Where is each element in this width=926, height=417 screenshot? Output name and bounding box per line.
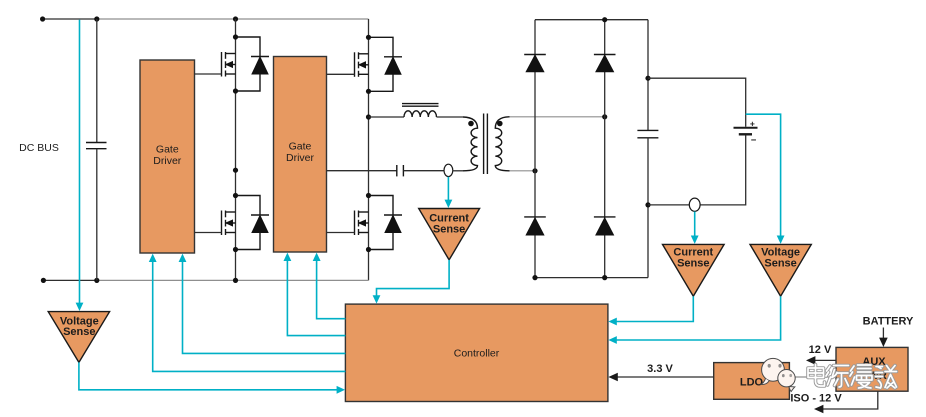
wire cyan current sense output to controller right — [616, 296, 694, 321]
diode D_Q4 body diode — [369, 196, 403, 250]
diode D3 — [524, 217, 546, 235]
wire series capacitor line from gate driver U2 — [327, 170, 397, 172]
arrowhead into gate driver U1 b — [179, 254, 187, 262]
wire secondary bottom to rectifier left leg — [510, 170, 535, 172]
wire cyan CT2 to current sense output — [694, 212, 696, 237]
node output bottom — [645, 202, 650, 207]
wire phase B to inductor — [369, 116, 405, 118]
svg-text:Controller: Controller — [454, 348, 500, 360]
svg-text:Sense: Sense — [677, 258, 709, 270]
arrowhead into current sense output — [691, 236, 699, 244]
diode D_Q3 body diode — [236, 196, 270, 250]
arrowhead into gate driver U1 a — [149, 254, 157, 262]
wire cyan CT1 to current sense primary — [447, 177, 449, 201]
wire top DC bus rail right part — [97, 18, 369, 20]
svg-text:Driver: Driver — [153, 155, 182, 167]
wire DC bus capacitor bottom lead — [96, 149, 98, 281]
svg-text:DC BUS: DC BUS — [19, 142, 59, 154]
node secondary bottom junction — [532, 168, 537, 173]
diode D1 — [524, 55, 546, 72]
node Q2 drain — [366, 35, 371, 40]
node Q1 source — [233, 88, 238, 93]
wire rectifier left leg — [534, 20, 536, 278]
transformer T1 secondary winding — [495, 117, 509, 171]
transformer T1 core — [484, 114, 488, 175]
wire rectifier top rail — [535, 19, 648, 21]
wire DC bus capacitor top lead — [96, 19, 98, 143]
inductor L1 core bars — [402, 104, 439, 107]
svg-text:BATTERY: BATTERY — [863, 316, 914, 328]
svg-text:Gate: Gate — [156, 144, 179, 156]
arrowhead battery into AUX — [879, 338, 888, 347]
wire LDO to AUX link — [789, 376, 836, 378]
wire cyan controller to gate driver U1 a — [153, 261, 346, 371]
AUX power module U5 — [836, 347, 908, 391]
inductor L1 — [404, 111, 436, 117]
watermark logo bubble large — [761, 358, 785, 384]
arrowhead ISO -12V — [814, 405, 823, 414]
svg-text:Sense: Sense — [433, 223, 465, 235]
wire Q3 gate — [195, 232, 222, 234]
arrowhead into controller right b — [608, 336, 616, 344]
transformer secondary polarity dot — [497, 121, 503, 127]
arrowhead into gate driver U2 b — [313, 253, 321, 261]
node top rail cap tap — [94, 16, 99, 21]
wire inductor to transformer primary top — [437, 116, 464, 118]
wire battery to bottom loop — [700, 135, 746, 205]
node rectifier bottom left — [532, 275, 537, 280]
transistor Q1 top-left MOSFET — [222, 52, 236, 77]
wire CT circle to transformer primary bottom — [453, 170, 463, 172]
watermark text 电源漫谈 — [808, 365, 897, 389]
op-amp triangle current sense output — [663, 244, 725, 296]
wire secondary top to rectifier right leg — [510, 116, 605, 118]
wire cyan controller to gate driver U2 b — [317, 260, 346, 319]
gate driver U1 — [140, 60, 195, 253]
wire output cap bottom to bottom rail — [647, 138, 649, 278]
node Q2 source — [366, 89, 371, 94]
wire 12V from AUX — [814, 359, 837, 361]
arrowhead into controller right a — [608, 318, 616, 326]
wire 3.3V LDO to controller — [617, 376, 714, 378]
wire bottom loop left part — [648, 204, 689, 206]
svg-text:Gate: Gate — [289, 141, 312, 153]
wire output top to battery — [648, 78, 746, 127]
arrowhead into voltage sense DC bus — [76, 303, 84, 311]
transformer primary polarity dot — [468, 121, 474, 127]
wire cyan battery tap to voltage sense output — [746, 114, 781, 236]
wire rectifier bottom rail — [535, 277, 648, 279]
current transformer CT2 circle — [689, 198, 700, 211]
svg-text:12 V: 12 V — [809, 344, 832, 356]
wire cyan controller to gate driver U1 b — [183, 261, 346, 353]
svg-text:3.3 V: 3.3 V — [647, 363, 673, 375]
arrowhead 12V — [806, 356, 815, 365]
battery BT1 minus plate — [739, 133, 752, 135]
svg-text:Sense: Sense — [764, 258, 796, 270]
arrowhead into current sense primary — [445, 200, 453, 208]
node rectifier bottom right — [602, 275, 607, 280]
node bottom rail left leg — [233, 278, 238, 283]
wire cyan DC bus to voltage sense — [79, 20, 81, 303]
arrowhead into controller top — [373, 295, 381, 303]
node Q1 drain — [233, 34, 238, 39]
node bottom rail cap tap — [94, 278, 99, 283]
wire output branch vertical — [647, 20, 649, 131]
wire cyan voltage sense to controller — [79, 362, 338, 389]
wire rectifier right leg — [604, 20, 606, 278]
wire top DC bus rail — [43, 18, 97, 20]
node secondary top junction — [602, 114, 607, 119]
capacitor C blocking — [397, 165, 404, 176]
wire capacitor to CT circle — [403, 170, 444, 172]
diode D2 — [594, 55, 616, 72]
transistor Q4 bottom-right MOSFET — [355, 211, 369, 236]
node Q3 source — [233, 247, 238, 252]
diode D_Q2 body diode — [369, 37, 403, 91]
op-amp triangle voltage sense output — [750, 244, 811, 296]
wire left bridge leg — [235, 19, 237, 280]
svg-text:+: + — [750, 118, 755, 128]
transistor Q3 bottom-left MOSFET — [222, 211, 236, 236]
svg-text:Sense: Sense — [63, 326, 95, 338]
wire cyan voltage sense output to controller right — [616, 296, 781, 340]
diode D4 — [594, 217, 616, 235]
capacitor DC bus — [86, 143, 107, 149]
arrowhead into gate driver U2 a — [284, 253, 292, 261]
node output top — [645, 76, 650, 81]
capacitor C out — [637, 130, 658, 137]
node top rail left end — [40, 16, 45, 21]
op-amp triangle voltage sense DC bus — [48, 312, 109, 363]
node rectifier top rail — [602, 17, 607, 22]
battery BT1 plus plate — [734, 127, 758, 129]
node bottom rail left end — [41, 278, 46, 283]
gate driver U2 — [274, 57, 327, 253]
node Q3 drain — [233, 193, 238, 198]
current transformer CT1 circle — [444, 164, 453, 176]
wire battery into AUX — [882, 328, 884, 340]
wire bottom DC bus rail right part — [97, 279, 369, 281]
wire Q4 gate — [327, 232, 355, 234]
diode D_Q1 body diode — [236, 37, 270, 91]
arrowhead into controller left — [337, 386, 345, 394]
node phase B tap — [366, 114, 371, 119]
node Q4 drain — [366, 193, 371, 198]
op-amp triangle current sense primary — [419, 209, 480, 260]
svg-text:−: − — [751, 135, 757, 146]
arrowhead 3.3V into controller — [608, 373, 617, 382]
node Q4 source — [366, 247, 371, 252]
wire right bridge leg — [368, 19, 370, 280]
wire Q2 gate — [327, 73, 355, 75]
arrowhead into voltage sense output — [777, 236, 785, 244]
svg-text:LDO: LDO — [740, 377, 764, 389]
node top rail left leg — [233, 16, 238, 21]
svg-text:ISO - 12 V: ISO - 12 V — [790, 393, 842, 405]
transformer T1 primary winding — [463, 117, 478, 171]
controller U3 — [345, 304, 608, 401]
transistor Q2 top-right MOSFET — [355, 52, 369, 77]
wire ISO -12V from AUX — [822, 391, 878, 409]
LDO U4 — [714, 363, 790, 400]
wire cyan current sense primary to controller top — [377, 260, 450, 296]
node phase A tap — [233, 168, 238, 173]
wire Q1 gate — [195, 73, 222, 75]
watermark logo bubble small — [778, 370, 795, 392]
wire bottom DC bus rail — [43, 279, 96, 281]
wire cyan controller to gate driver U2 a — [287, 260, 345, 336]
svg-text:Driver: Driver — [286, 152, 315, 164]
